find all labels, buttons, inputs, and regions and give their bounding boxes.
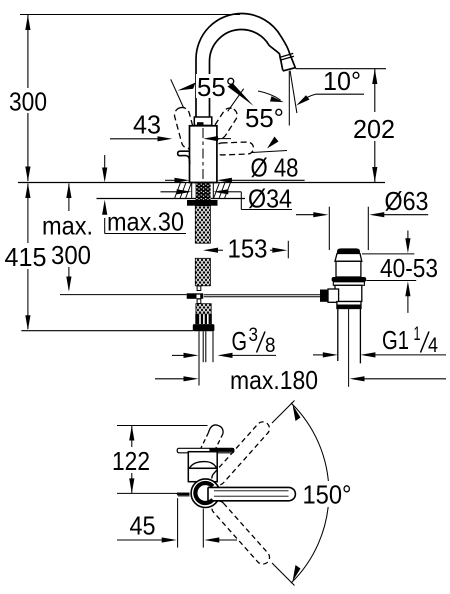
svg-text:max.30: max.30 [107, 207, 184, 237]
drain O-ring [332, 277, 367, 282]
svg-text:max.180: max.180 [230, 365, 318, 395]
pop-up rod coupling [187, 293, 204, 299]
body upper (plan) [188, 452, 217, 469]
hole edge right [212, 183, 214, 199]
svg-text:153: 153 [228, 234, 268, 264]
wire: bottom extent line for 415 [21, 330, 193, 332]
faucet body (cartridge housing) [190, 126, 217, 183]
label Ø63 (drain flange diameter) [296, 186, 429, 250]
drain flange [333, 282, 364, 286]
dashed handle position (up) [200, 425, 223, 452]
drain tube [335, 285, 362, 301]
swivel arc 150° [291, 403, 329, 583]
hatch left [175, 183, 192, 199]
svg-text:300: 300 [9, 87, 47, 117]
side tab (left of pivot) [177, 494, 190, 496]
collar under spout pipe [194, 117, 212, 126]
dimension 153 (spout reach) [203, 234, 288, 264]
threaded shank segment B [195, 258, 210, 286]
svg-text:8: 8 [265, 334, 276, 357]
drain neck [335, 254, 362, 262]
svg-text:10°: 10° [323, 66, 361, 96]
label max.30 (deck thickness) [102, 155, 186, 237]
mounting nut flange [187, 200, 218, 206]
hose nut bottom flange [193, 324, 215, 331]
spout arc (swan-neck tube) [196, 14, 296, 129]
threaded shank segment A [195, 206, 210, 244]
label 150° [299, 480, 355, 510]
dashed spout position lower (45° down-right) [209, 498, 272, 567]
pop-up rod (left part) [60, 294, 187, 296]
threaded shank segment C [196, 304, 211, 314]
body tick [202, 468, 209, 471]
aerator joint lines on spout outlet [279, 53, 296, 71]
label 10° with leader [296, 66, 364, 106]
drain lower ring [337, 302, 361, 309]
drain top cap [337, 248, 360, 253]
dashed lever position up-right [209, 105, 240, 141]
drain upper cylinder [336, 261, 361, 277]
dimension 300 (height above deck) [9, 15, 47, 182]
pin above rod coupling [197, 286, 201, 291]
body lower (plan) [188, 468, 217, 481]
dimension max.300 (hose clearance) [42, 183, 93, 292]
radial line upper [272, 401, 295, 424]
solid lever handle (left) [178, 151, 190, 164]
svg-text:122: 122 [112, 446, 150, 476]
dimension 415 (total height) [5, 183, 47, 330]
deck / countertop [18, 183, 385, 199]
dimension 40-53 (drain adjustment) [362, 231, 438, 313]
angle 55° (lower label at outlet) [245, 91, 287, 153]
supply hoses [199, 331, 213, 385]
rod port box [328, 289, 339, 302]
svg-text:Ø34: Ø34 [248, 184, 292, 214]
svg-text:43: 43 [133, 110, 161, 140]
svg-text:G1: G1 [382, 325, 409, 355]
wire: extension line at outlet level for 202 [296, 68, 387, 70]
spout bar (solid, pointing right) [208, 487, 295, 500]
label Ø34 (hole diameter) [161, 184, 295, 214]
svg-text:45: 45 [130, 511, 156, 541]
node: left lever axis extension [171, 79, 184, 107]
rod port knob [320, 290, 328, 302]
dimension max.180 (axis distance) [155, 365, 446, 395]
svg-text:1: 1 [414, 324, 421, 345]
pop-up rod (right part, double line) [204, 294, 321, 296]
node: right lever axis extension [228, 89, 244, 112]
dimension 202 (outlet height) [353, 69, 395, 182]
dashed spout position upper (45° up-right) [209, 419, 272, 488]
svg-text:4: 4 [428, 334, 438, 357]
hose nut stack [195, 314, 212, 324]
dashed lever position up-left [173, 106, 198, 150]
svg-text:300: 300 [51, 240, 91, 270]
wire: bottom extent line for 122 [117, 492, 178, 494]
hole edge left [191, 183, 193, 199]
wire: top extent line for 122 [117, 425, 208, 427]
label G 3/8 (hose thread) [172, 325, 276, 358]
node: outlet 10-degree tilted line [290, 70, 297, 113]
dimension 43 (lever reach) [110, 110, 231, 142]
svg-text:202: 202 [353, 114, 395, 144]
svg-text:415: 415 [5, 242, 47, 272]
tailpipe [337, 309, 339, 362]
radial line lower [272, 563, 295, 586]
lever bar (plan) [177, 448, 234, 453]
pivot inner ring [195, 483, 212, 503]
arrow onto right axis [228, 83, 254, 106]
drain axis line [348, 309, 350, 387]
svg-text:55°: 55° [245, 103, 284, 133]
svg-text:40-53: 40-53 [380, 253, 438, 283]
svg-text:Ø63: Ø63 [385, 186, 429, 216]
node: outlet vertical reference line [288, 71, 290, 125]
svg-text:G: G [232, 326, 248, 356]
threaded shank through deck [196, 183, 211, 201]
pivot outer circle [191, 479, 220, 508]
dimension 45 [117, 498, 237, 547]
label G1 1/4 (drain thread) [313, 324, 446, 358]
spout outlet end face [283, 68, 296, 71]
wire: top extent line for 300 [20, 14, 240, 16]
svg-text:max.: max. [42, 211, 93, 241]
dimension 122 [112, 426, 150, 494]
angle 55° (handle swivel, upper label) [171, 72, 254, 111]
label Ø48 (body diameter) [165, 153, 305, 183]
svg-text:150°: 150° [303, 480, 352, 510]
pin below rod coupling [197, 299, 201, 304]
svg-text:Ø 48: Ø 48 [251, 153, 299, 183]
svg-text:3: 3 [249, 325, 259, 346]
dashed lever position right-horizontal [216, 142, 254, 155]
arrow onto left axis [178, 83, 196, 91]
